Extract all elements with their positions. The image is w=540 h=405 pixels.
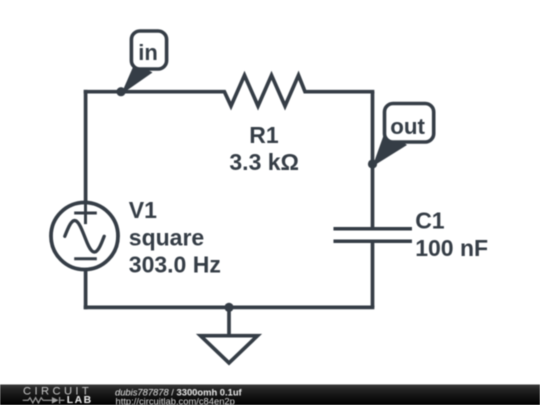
- svg-text:100 nF: 100 nF: [415, 235, 488, 261]
- svg-text:C1: C1: [415, 207, 445, 233]
- svg-text:3.3 kΩ: 3.3 kΩ: [229, 149, 299, 175]
- svg-text:square: square: [129, 224, 204, 250]
- svg-text:LAB: LAB: [67, 395, 93, 405]
- svg-text:out: out: [390, 114, 425, 139]
- svg-text:R1: R1: [249, 122, 279, 148]
- svg-text:in: in: [138, 40, 158, 65]
- svg-text:http://circuitlab.com/c84en2p: http://circuitlab.com/c84en2p: [116, 396, 235, 405]
- svg-text:303.0 Hz: 303.0 Hz: [129, 252, 221, 278]
- svg-text:V1: V1: [129, 197, 157, 223]
